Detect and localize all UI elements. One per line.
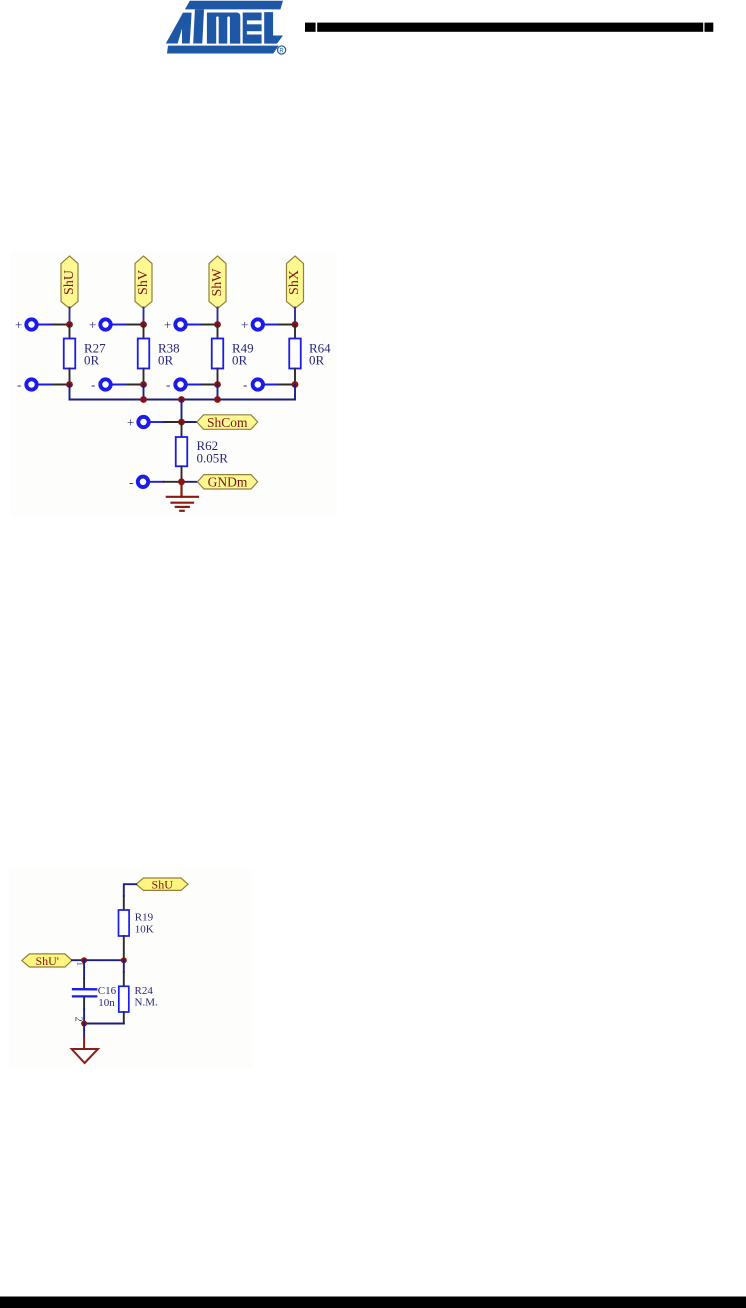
resistor R19 10K xyxy=(119,910,154,936)
wire - pad to GNDm junction xyxy=(164,481,182,483)
wire R24 to bottom node xyxy=(123,1012,125,1024)
wire - pad to junction xyxy=(53,384,70,386)
wire ShU' flag to nodes xyxy=(72,959,124,961)
ground GNDm xyxy=(167,482,198,511)
wire to R27 xyxy=(69,325,71,339)
wire + pad to ShCom junction xyxy=(164,421,182,423)
wire - pad to junction xyxy=(202,384,218,386)
svg-text:ShU: ShU xyxy=(62,270,77,295)
wire - pad to junction xyxy=(127,384,144,386)
svg-text:-: - xyxy=(243,377,247,392)
pin + pad column 2 xyxy=(89,317,127,332)
svg-text:2: 2 xyxy=(73,1017,84,1022)
wire - pad to junction xyxy=(279,384,296,386)
wire to R49 xyxy=(217,325,219,339)
svg-text:0.05R: 0.05R xyxy=(197,451,229,466)
wire ShCom junction to flag xyxy=(182,421,197,423)
ground (power gnd) xyxy=(72,1038,98,1064)
svg-text:10K: 10K xyxy=(135,924,154,936)
pin - pad GNDm xyxy=(129,474,164,489)
wire to common bus xyxy=(69,385,71,400)
wire R27 to - node xyxy=(69,369,71,385)
wire node to R24 xyxy=(123,960,125,972)
header rule xyxy=(305,23,713,32)
svg-text:R: R xyxy=(279,48,284,54)
wire bus to ShCom node xyxy=(181,400,183,423)
wire to common bus xyxy=(143,385,145,400)
wire ShV flag to + node xyxy=(143,308,145,325)
wire R64 to - node xyxy=(294,369,296,385)
wire node to C16 xyxy=(83,960,85,978)
schematic 2 background xyxy=(9,869,252,1069)
svg-text:R19: R19 xyxy=(135,912,154,924)
svg-text:ShCom: ShCom xyxy=(207,415,248,430)
net label ShW xyxy=(209,256,226,309)
svg-text:R24: R24 xyxy=(135,985,154,997)
pin - pad column 3 xyxy=(166,377,202,392)
svg-text:-: - xyxy=(166,377,170,392)
junction ShV/- xyxy=(140,381,147,388)
Atmel logo xyxy=(166,1,286,55)
net label ShU xyxy=(61,256,78,309)
junction ShU/- xyxy=(66,381,73,388)
svg-text:ShU': ShU' xyxy=(35,954,59,968)
junction ShCom xyxy=(178,419,185,426)
wire + pad to junction xyxy=(127,324,144,326)
svg-text:+: + xyxy=(241,317,248,332)
svg-text:-: - xyxy=(129,474,133,489)
resistor R62 0.05R xyxy=(176,437,229,466)
junction ShX/+ xyxy=(292,321,299,328)
svg-text:ShU: ShU xyxy=(152,877,174,891)
pin - pad column 2 xyxy=(91,377,127,392)
wire ShX flag to + node xyxy=(294,308,296,325)
footer bar xyxy=(0,1297,746,1308)
net label ShU' xyxy=(22,954,72,968)
wire ShU flag to + node xyxy=(69,308,71,325)
wire R49 to - node xyxy=(217,369,219,385)
svg-text:0R: 0R xyxy=(232,353,248,368)
svg-text:0R: 0R xyxy=(309,353,325,368)
net label ShX xyxy=(287,256,304,309)
junction bus/ShW xyxy=(214,396,221,403)
resistor R24 N.M. xyxy=(119,985,158,1012)
wire to R38 xyxy=(143,325,145,339)
junction ShW/+ xyxy=(214,321,221,328)
pin + pad ShCom xyxy=(127,415,164,430)
svg-text:N.M.: N.M. xyxy=(135,997,158,1009)
resistor R27 0R xyxy=(64,339,106,369)
junction GNDm xyxy=(178,478,185,485)
wire ShW flag to + node xyxy=(217,308,219,325)
wire ShCom to R62 xyxy=(181,422,183,437)
capacitor C16 10n xyxy=(73,985,117,1009)
svg-text:ShV: ShV xyxy=(136,270,151,295)
junction C16 top xyxy=(81,957,87,963)
net label ShCom xyxy=(197,415,258,430)
wire + pad to junction xyxy=(202,324,218,326)
wire ShU flag to R19 xyxy=(124,884,136,896)
resistor R64 0R xyxy=(289,339,331,369)
wire to R64 xyxy=(294,325,296,339)
pin + pad column 1 xyxy=(15,317,53,332)
svg-text:ShX: ShX xyxy=(287,270,302,295)
svg-text:-: - xyxy=(17,377,21,392)
pin + pad column 3 xyxy=(164,317,202,332)
wire common bus xyxy=(70,399,296,401)
junction C16 bottom xyxy=(81,1021,87,1027)
wire + pad to junction xyxy=(53,324,70,326)
junction bus/center tap xyxy=(178,396,185,403)
junction R19/R24 xyxy=(121,957,127,963)
net label GNDm xyxy=(197,475,257,490)
wire + pad to junction xyxy=(279,324,296,326)
junction ShX/- xyxy=(292,381,299,388)
svg-text:C16: C16 xyxy=(98,985,117,997)
net label ShV xyxy=(135,256,152,309)
wire to common bus xyxy=(217,385,219,400)
wire node to ground xyxy=(83,1024,85,1038)
junction bus/ShV xyxy=(140,396,147,403)
svg-text:ShW: ShW xyxy=(210,268,225,297)
svg-text:+: + xyxy=(89,317,96,332)
junction ShV/+ xyxy=(140,321,147,328)
junction ShW/- xyxy=(214,381,221,388)
svg-text:GNDm: GNDm xyxy=(208,475,248,490)
wire GNDm junction to flag xyxy=(182,481,198,483)
pin - pad column 1 xyxy=(17,377,53,392)
wire R62 to GNDm node xyxy=(181,466,183,482)
svg-text:0R: 0R xyxy=(158,353,174,368)
svg-text:0R: 0R xyxy=(84,353,100,368)
svg-text:+: + xyxy=(15,317,22,332)
wire R38 to - node xyxy=(143,369,145,385)
pin + pad column 4 xyxy=(241,317,279,332)
svg-text:-: - xyxy=(91,377,95,392)
svg-text:+: + xyxy=(164,317,171,332)
net label ShU xyxy=(136,877,188,891)
wire R19 to node ShU' xyxy=(123,936,125,960)
resistor R49 0R xyxy=(212,339,254,369)
schematic 1 background xyxy=(11,251,337,518)
svg-text:+: + xyxy=(127,415,134,430)
resistor R38 0R xyxy=(138,339,180,369)
svg-text:10n: 10n xyxy=(98,997,115,1009)
wire to common bus xyxy=(294,385,296,400)
pin - pad column 4 xyxy=(243,377,279,392)
wire C16 to bottom node xyxy=(83,998,85,1010)
junction ShU/+ xyxy=(66,321,73,328)
